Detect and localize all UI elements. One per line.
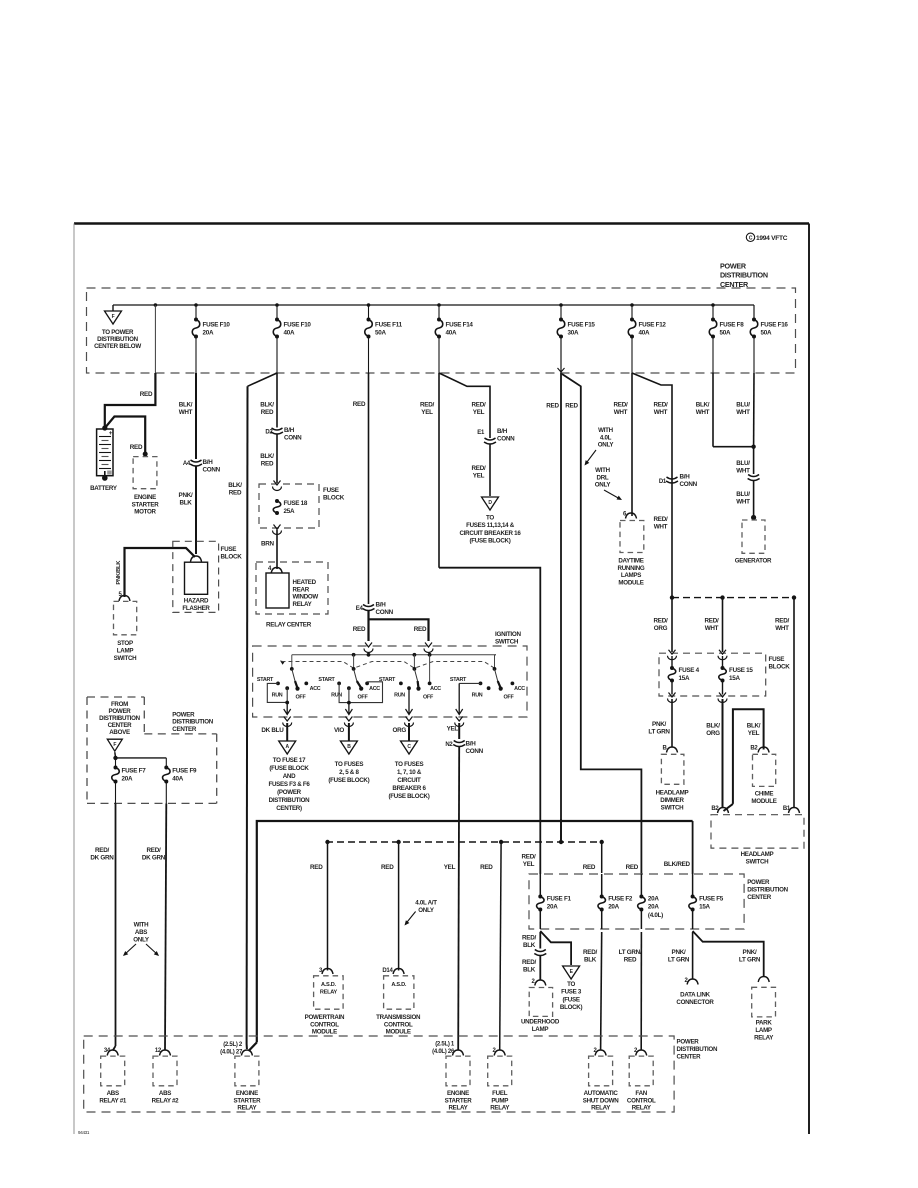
svg-text:D1: D1 <box>659 479 667 485</box>
svg-text:BLK/RED: BLK/RED <box>664 861 691 868</box>
svg-text:RED/: RED/ <box>654 402 668 409</box>
svg-text:CONTROL: CONTROL <box>384 1021 413 1028</box>
svg-text:B/H: B/H <box>680 474 691 481</box>
svg-text:RUN: RUN <box>331 692 342 698</box>
svg-text:(POWER: (POWER <box>277 789 302 796</box>
svg-text:YEL: YEL <box>444 864 456 871</box>
svg-text:LT GRN: LT GRN <box>648 729 670 736</box>
svg-text:FUSE F10: FUSE F10 <box>284 322 312 329</box>
svg-text:WHT: WHT <box>736 468 750 475</box>
svg-text:DK GRN: DK GRN <box>90 855 114 862</box>
svg-text:RED/: RED/ <box>654 516 668 523</box>
svg-text:HAZARD: HAZARD <box>184 598 209 605</box>
svg-text:LAMP: LAMP <box>117 647 134 654</box>
svg-text:RED/: RED/ <box>472 402 486 409</box>
svg-text:RED/: RED/ <box>705 618 719 625</box>
svg-text:RELAY: RELAY <box>293 601 313 608</box>
svg-text:N2: N2 <box>445 742 453 748</box>
svg-text:30A: 30A <box>568 330 579 337</box>
svg-text:RED/: RED/ <box>522 959 536 966</box>
svg-text:(2.5L) 2: (2.5L) 2 <box>223 1042 243 1048</box>
svg-text:TO FUSES: TO FUSES <box>395 761 424 768</box>
svg-text:FUSE F12: FUSE F12 <box>639 322 667 329</box>
svg-text:MOTOR: MOTOR <box>134 509 156 516</box>
svg-text:RELAY CENTER: RELAY CENTER <box>266 622 312 629</box>
svg-text:BLU/: BLU/ <box>736 402 750 409</box>
svg-text:1994 VFTC: 1994 VFTC <box>756 235 788 242</box>
svg-text:ONLY: ONLY <box>133 936 150 943</box>
svg-text:DISTRIBUTION: DISTRIBUTION <box>269 797 310 804</box>
svg-text:D14: D14 <box>382 968 393 974</box>
svg-text:BLOCK: BLOCK <box>221 553 243 560</box>
svg-text:RED: RED <box>353 626 366 633</box>
svg-text:FROM: FROM <box>111 701 128 708</box>
svg-text:PNK/: PNK/ <box>652 721 666 728</box>
svg-text:AUTOMATIC: AUTOMATIC <box>584 1090 619 1097</box>
svg-text:RELAY: RELAY <box>448 1105 468 1112</box>
svg-text:PUMP: PUMP <box>491 1097 508 1104</box>
svg-text:A.S.D.: A.S.D. <box>321 982 337 988</box>
svg-text:FLASHER: FLASHER <box>182 605 210 612</box>
svg-text:BRN: BRN <box>261 541 275 548</box>
svg-text:RED: RED <box>565 403 578 410</box>
svg-text:CENTER: CENTER <box>108 722 133 729</box>
svg-text:PNK/: PNK/ <box>179 492 193 499</box>
svg-text:WHT: WHT <box>696 409 710 416</box>
svg-text:B1: B1 <box>783 806 791 812</box>
svg-text:SWITCH: SWITCH <box>114 655 138 662</box>
svg-text:CIRCUIT BREAKER 16: CIRCUIT BREAKER 16 <box>460 530 522 537</box>
svg-text:TO: TO <box>486 515 494 522</box>
svg-text:40A: 40A <box>639 330 650 337</box>
svg-text:RED: RED <box>480 864 493 871</box>
svg-text:RUN: RUN <box>472 692 483 698</box>
svg-text:RED/: RED/ <box>147 847 161 854</box>
svg-text:CONN: CONN <box>376 609 394 616</box>
svg-text:OFF: OFF <box>358 694 369 700</box>
svg-text:4.0L A/T: 4.0L A/T <box>415 900 437 907</box>
svg-text:FUSE F2: FUSE F2 <box>608 896 633 903</box>
svg-text:(4.0L) 27: (4.0L) 27 <box>220 1050 243 1056</box>
svg-text:STARTER: STARTER <box>233 1097 261 1104</box>
svg-text:FUSE F10: FUSE F10 <box>203 322 231 329</box>
svg-text:ABS: ABS <box>107 1090 119 1097</box>
svg-text:15A: 15A <box>729 675 740 682</box>
svg-text:FAN: FAN <box>635 1090 647 1097</box>
svg-text:RED: RED <box>140 391 153 398</box>
svg-text:B/H: B/H <box>497 428 508 435</box>
svg-text:FUSE: FUSE <box>323 487 339 494</box>
svg-text:RED: RED <box>626 864 639 871</box>
svg-text:DISTRIBUTION: DISTRIBUTION <box>720 271 768 280</box>
svg-text:CENTER: CENTER <box>677 1053 702 1060</box>
svg-text:(FUSE BLOCK: (FUSE BLOCK <box>269 765 309 772</box>
svg-text:WITH: WITH <box>595 467 610 474</box>
svg-text:WITH: WITH <box>134 922 149 929</box>
svg-text:WHT: WHT <box>736 409 750 416</box>
svg-text:20A: 20A <box>608 904 619 911</box>
svg-text:CONN: CONN <box>466 748 484 755</box>
svg-text:20A: 20A <box>547 904 558 911</box>
svg-text:FUSE 18: FUSE 18 <box>284 500 308 507</box>
svg-text:CENTER): CENTER) <box>276 805 302 812</box>
svg-text:FUSE F1: FUSE F1 <box>547 896 572 903</box>
svg-text:RED: RED <box>583 864 596 871</box>
svg-text:(FUSE: (FUSE <box>563 996 580 1003</box>
svg-text:FUSE F5: FUSE F5 <box>699 896 724 903</box>
svg-text:HEADLAMP: HEADLAMP <box>656 790 689 797</box>
svg-text:BLU/: BLU/ <box>736 491 750 498</box>
svg-text:RED: RED <box>229 490 242 497</box>
svg-text:RELAY: RELAY <box>632 1105 652 1112</box>
svg-text:RED: RED <box>310 864 323 871</box>
svg-text:B/H: B/H <box>466 741 477 748</box>
svg-text:DISTRIBUTION: DISTRIBUTION <box>747 886 788 893</box>
svg-text:20A: 20A <box>648 904 659 911</box>
svg-text:RELAY: RELAY <box>320 990 338 996</box>
svg-text:B/H: B/H <box>203 459 214 466</box>
svg-text:LAMP: LAMP <box>755 1027 772 1034</box>
svg-text:ONLY: ONLY <box>595 482 612 489</box>
svg-text:(4.0L): (4.0L) <box>648 912 663 919</box>
svg-text:50A: 50A <box>761 330 772 337</box>
svg-text:START: START <box>450 677 467 683</box>
svg-text:15A: 15A <box>679 675 690 682</box>
svg-text:BLOCK: BLOCK <box>769 663 791 670</box>
svg-text:BLK/: BLK/ <box>260 402 274 409</box>
svg-text:FUSE F9: FUSE F9 <box>172 768 197 775</box>
svg-text:DISTRIBUTION: DISTRIBUTION <box>99 715 140 722</box>
svg-text:POWER: POWER <box>677 1039 700 1046</box>
svg-text:B/H: B/H <box>376 602 387 609</box>
svg-text:BLK: BLK <box>584 957 597 964</box>
svg-text:YEL: YEL <box>473 409 485 416</box>
svg-text:FUSES 11,13,14 &: FUSES 11,13,14 & <box>466 522 515 529</box>
svg-text:RED/: RED/ <box>775 618 789 625</box>
svg-text:DISTRIBUTION: DISTRIBUTION <box>677 1046 718 1053</box>
svg-text:94431: 94431 <box>78 1130 90 1135</box>
svg-text:20A: 20A <box>122 776 133 783</box>
svg-text:PNK/: PNK/ <box>743 949 757 956</box>
svg-text:CONN: CONN <box>203 467 221 474</box>
svg-text:WINDOW: WINDOW <box>293 594 319 601</box>
svg-text:RELAY: RELAY <box>754 1034 774 1041</box>
svg-text:VIO: VIO <box>334 727 344 734</box>
svg-text:FUEL: FUEL <box>492 1090 508 1097</box>
svg-text:RUN: RUN <box>394 692 405 698</box>
svg-text:DK BLU: DK BLU <box>261 727 284 734</box>
svg-text:OFF: OFF <box>423 694 434 700</box>
svg-text:SWITCH: SWITCH <box>661 804 685 811</box>
svg-text:FUSE F11: FUSE F11 <box>375 322 403 329</box>
svg-text:WHT: WHT <box>736 499 750 506</box>
svg-text:ORG: ORG <box>706 730 720 737</box>
svg-text:BLOCK): BLOCK) <box>560 1004 583 1011</box>
svg-text:WHT: WHT <box>614 409 628 416</box>
svg-text:RED/: RED/ <box>472 465 486 472</box>
svg-text:TO: TO <box>567 981 575 988</box>
svg-text:(4.0L) 26: (4.0L) 26 <box>432 1049 455 1055</box>
svg-text:(FUSE BLOCK): (FUSE BLOCK) <box>328 777 369 784</box>
svg-text:POWER: POWER <box>172 712 195 719</box>
svg-text:50A: 50A <box>375 330 386 337</box>
svg-text:40A: 40A <box>446 330 457 337</box>
svg-text:WHT: WHT <box>179 409 193 416</box>
svg-text:LT GRN: LT GRN <box>668 957 690 964</box>
svg-text:RUN: RUN <box>272 692 283 698</box>
svg-text:FUSE: FUSE <box>769 656 785 663</box>
svg-text:BLK: BLK <box>179 500 192 507</box>
svg-text:B/H: B/H <box>284 427 295 434</box>
svg-text:CONN: CONN <box>680 481 698 488</box>
svg-text:DISTRIBUTION: DISTRIBUTION <box>172 719 213 726</box>
svg-text:1, 7, 10 &: 1, 7, 10 & <box>397 769 422 776</box>
svg-text:F: F <box>113 742 116 748</box>
svg-text:BLK/: BLK/ <box>260 453 274 460</box>
svg-text:WHT: WHT <box>654 524 668 531</box>
svg-text:RED/: RED/ <box>95 847 109 854</box>
svg-text:ACC: ACC <box>310 686 321 692</box>
svg-text:E4: E4 <box>356 606 364 612</box>
svg-text:LT GRN/: LT GRN/ <box>619 949 642 956</box>
svg-text:ACC: ACC <box>514 686 525 692</box>
svg-text:WHT: WHT <box>775 625 789 632</box>
svg-text:BREAKER 6: BREAKER 6 <box>392 785 426 792</box>
svg-text:POWER: POWER <box>720 262 747 271</box>
svg-text:SWITCH: SWITCH <box>495 638 519 645</box>
svg-text:BLK: BLK <box>523 967 536 974</box>
svg-text:PNK/BLK: PNK/BLK <box>116 560 122 585</box>
svg-text:MODULE: MODULE <box>312 1029 337 1036</box>
svg-text:ENGINE: ENGINE <box>134 494 156 501</box>
svg-text:DK GRN: DK GRN <box>142 855 166 862</box>
svg-text:ACC: ACC <box>430 686 441 692</box>
svg-text:RED/: RED/ <box>522 854 536 861</box>
svg-text:D2: D2 <box>265 430 273 436</box>
svg-text:START: START <box>257 677 274 683</box>
svg-text:YEL: YEL <box>421 409 433 416</box>
svg-text:POWERTRAIN: POWERTRAIN <box>305 1014 345 1021</box>
svg-text:CONNECTOR: CONNECTOR <box>676 999 714 1006</box>
svg-text:TRANSMISSION: TRANSMISSION <box>376 1014 421 1021</box>
svg-text:IGNITION: IGNITION <box>495 631 521 638</box>
svg-text:(2.5L) 1: (2.5L) 1 <box>435 1042 455 1048</box>
svg-text:POWER: POWER <box>747 879 770 886</box>
svg-text:RED: RED <box>353 401 366 408</box>
svg-text:LAMP: LAMP <box>532 1026 549 1033</box>
svg-text:YEL: YEL <box>447 726 459 733</box>
svg-text:RELAY #2: RELAY #2 <box>152 1097 179 1104</box>
svg-text:PARK: PARK <box>756 1020 773 1027</box>
svg-text:40A: 40A <box>284 330 295 337</box>
svg-text:WHT: WHT <box>705 625 719 632</box>
svg-text:20A: 20A <box>648 896 659 903</box>
svg-text:CONN: CONN <box>284 435 302 442</box>
svg-text:15A: 15A <box>699 904 710 911</box>
svg-text:SWITCH: SWITCH <box>746 858 770 865</box>
svg-text:RELAY: RELAY <box>237 1105 257 1112</box>
svg-text:CENTER: CENTER <box>172 726 197 733</box>
svg-text:(FUSE BLOCK): (FUSE BLOCK) <box>389 793 430 800</box>
svg-text:ONLY: ONLY <box>418 907 435 914</box>
svg-text:RED: RED <box>261 409 274 416</box>
svg-text:RED/: RED/ <box>522 935 536 942</box>
svg-text:TO FUSE 17: TO FUSE 17 <box>273 757 306 764</box>
svg-text:YEL: YEL <box>523 861 535 868</box>
svg-text:RED/: RED/ <box>654 618 668 625</box>
svg-text:ORG: ORG <box>654 625 668 632</box>
svg-text:E1: E1 <box>477 430 485 436</box>
svg-text:BLK/: BLK/ <box>179 402 193 409</box>
svg-text:LAMPS: LAMPS <box>621 572 641 579</box>
svg-text:TO POWER: TO POWER <box>102 329 134 336</box>
svg-text:HEATED: HEATED <box>293 579 317 586</box>
svg-text:RED: RED <box>546 403 559 410</box>
svg-text:STARTER: STARTER <box>445 1097 473 1104</box>
svg-text:BLK: BLK <box>523 942 536 949</box>
svg-text:RELAY #1: RELAY #1 <box>99 1097 126 1104</box>
svg-text:UNDERHOOD: UNDERHOOD <box>521 1019 560 1026</box>
svg-text:CONTROL: CONTROL <box>310 1021 339 1028</box>
svg-text:A.S.D.: A.S.D. <box>391 982 407 988</box>
svg-text:YEL: YEL <box>473 473 485 480</box>
svg-text:START: START <box>318 677 335 683</box>
svg-text:FUSES F3 & F6: FUSES F3 & F6 <box>268 781 310 788</box>
svg-text:RED/: RED/ <box>583 949 597 956</box>
svg-text:CHIME: CHIME <box>755 791 774 798</box>
svg-text:FUSE 3: FUSE 3 <box>561 989 582 996</box>
svg-text:PNK/: PNK/ <box>672 949 686 956</box>
svg-text:DAYTIME: DAYTIME <box>618 558 643 565</box>
svg-text:ONLY: ONLY <box>598 442 615 449</box>
svg-text:50A: 50A <box>720 330 731 337</box>
svg-text:STOP: STOP <box>117 640 133 647</box>
svg-text:RUNNING: RUNNING <box>618 565 645 572</box>
svg-text:ENGINE: ENGINE <box>447 1090 469 1097</box>
svg-text:BLOCK: BLOCK <box>323 494 345 501</box>
svg-text:FUSE 15: FUSE 15 <box>729 667 753 674</box>
svg-text:40A: 40A <box>172 776 183 783</box>
svg-text:BLK/: BLK/ <box>747 723 761 730</box>
svg-text:2, 5 & 8: 2, 5 & 8 <box>339 769 359 776</box>
svg-text:34: 34 <box>104 1048 111 1054</box>
svg-text:DATA LINK: DATA LINK <box>680 992 710 999</box>
svg-text:ORG: ORG <box>392 727 406 734</box>
svg-text:25A: 25A <box>284 508 295 515</box>
svg-text:OFF: OFF <box>296 694 307 700</box>
svg-text:RELAY: RELAY <box>591 1105 611 1112</box>
svg-text:FUSE F16: FUSE F16 <box>761 322 789 329</box>
svg-text:MODULE: MODULE <box>751 798 776 805</box>
svg-text:SHUT DOWN: SHUT DOWN <box>583 1097 619 1104</box>
svg-text:MODULE: MODULE <box>618 579 643 586</box>
svg-text:ACC: ACC <box>369 686 380 692</box>
svg-text:WITH: WITH <box>598 427 613 434</box>
svg-text:RED/: RED/ <box>614 402 628 409</box>
svg-text:STARTER: STARTER <box>132 501 160 508</box>
svg-text:FUSE: FUSE <box>221 546 237 553</box>
svg-text:HEADLAMP: HEADLAMP <box>741 851 774 858</box>
svg-text:20A: 20A <box>203 330 214 337</box>
svg-text:ABOVE: ABOVE <box>109 729 130 736</box>
svg-text:FUSE F7: FUSE F7 <box>122 768 147 775</box>
svg-text:ABS: ABS <box>159 1090 171 1097</box>
svg-text:BLK/: BLK/ <box>706 723 720 730</box>
svg-text:REAR: REAR <box>293 586 310 593</box>
svg-text:OFF: OFF <box>504 694 515 700</box>
svg-text:BLU/: BLU/ <box>736 460 750 467</box>
svg-text:B2: B2 <box>750 746 758 752</box>
svg-text:RED: RED <box>624 957 637 964</box>
svg-text:B2: B2 <box>711 806 719 812</box>
svg-text:WHT: WHT <box>654 409 668 416</box>
svg-text:CIRCUIT: CIRCUIT <box>397 777 421 784</box>
svg-text:CONN: CONN <box>497 436 515 443</box>
svg-text:START: START <box>379 677 396 683</box>
svg-text:AND: AND <box>283 773 296 780</box>
svg-text:ENGINE: ENGINE <box>236 1090 258 1097</box>
svg-text:FUSE 4: FUSE 4 <box>679 667 700 674</box>
svg-text:MODULE: MODULE <box>386 1029 411 1036</box>
svg-text:(FUSE BLOCK): (FUSE BLOCK) <box>470 538 511 545</box>
svg-text:FUSE F14: FUSE F14 <box>446 322 474 329</box>
svg-text:POWER: POWER <box>109 708 132 715</box>
svg-text:YEL: YEL <box>748 730 760 737</box>
svg-text:LT GRN: LT GRN <box>739 957 761 964</box>
svg-text:CONTROL: CONTROL <box>627 1097 656 1104</box>
svg-text:RED/: RED/ <box>420 402 434 409</box>
svg-text:RED: RED <box>130 444 143 451</box>
svg-text:TO FUSES: TO FUSES <box>335 761 364 768</box>
svg-text:RED: RED <box>381 864 394 871</box>
svg-text:F: F <box>112 314 115 320</box>
svg-text:12: 12 <box>155 1048 162 1054</box>
svg-text:ABS: ABS <box>135 929 147 936</box>
svg-text:CENTER BELOW: CENTER BELOW <box>94 343 141 350</box>
svg-text:FUSE F15: FUSE F15 <box>568 322 596 329</box>
svg-text:CENTER: CENTER <box>747 894 772 901</box>
svg-text:4.0L: 4.0L <box>600 434 612 441</box>
svg-text:DISTRIBUTION: DISTRIBUTION <box>97 336 138 343</box>
svg-text:FUSE F8: FUSE F8 <box>720 322 745 329</box>
svg-text:BLK/: BLK/ <box>696 402 710 409</box>
svg-text:GENERATOR: GENERATOR <box>735 558 772 565</box>
svg-text:RELAY: RELAY <box>490 1105 510 1112</box>
svg-text:DIMMER: DIMMER <box>660 797 684 804</box>
svg-text:BLK/: BLK/ <box>228 482 242 489</box>
svg-text:BATTERY: BATTERY <box>90 485 118 492</box>
svg-text:A4: A4 <box>183 461 191 467</box>
svg-text:DRL: DRL <box>597 474 609 481</box>
svg-text:RED: RED <box>414 626 427 633</box>
svg-text:RED: RED <box>261 461 274 468</box>
